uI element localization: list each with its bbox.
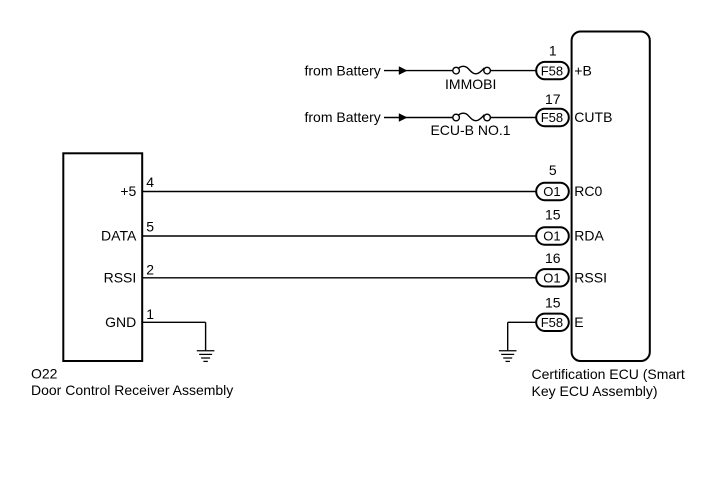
wire DATA to RDA [142, 235, 536, 237]
ground (left) [197, 351, 215, 362]
svg-text:5: 5 [549, 162, 557, 178]
svg-text:F58: F58 [541, 110, 563, 125]
fuse ECU-B NO.1 [453, 113, 491, 121]
connector F58 pin +B [536, 62, 569, 79]
box U1 Certification ECU [572, 32, 650, 362]
connector F58 pin E [536, 314, 569, 331]
svg-text:E: E [574, 314, 583, 330]
svg-text:Certification ECU (Smart: Certification ECU (Smart [532, 366, 685, 382]
svg-text:from Battery: from Battery [305, 109, 381, 125]
svg-text:CUTB: CUTB [574, 109, 612, 125]
ground (right) [499, 351, 517, 362]
svg-text:4: 4 [146, 174, 154, 190]
arrow on battery wire 1 [399, 66, 408, 75]
wire fuse ECU-B to connector F58 [490, 117, 536, 119]
svg-text:5: 5 [146, 219, 154, 235]
fuse IMMOBI [453, 66, 491, 74]
svg-text:IMMOBI: IMMOBI [445, 76, 496, 92]
svg-text:O22: O22 [31, 366, 58, 382]
svg-text:1: 1 [549, 43, 557, 59]
svg-text:GND: GND [105, 314, 136, 330]
connector F58 pin CUTB [536, 109, 569, 126]
wire E horizontal [508, 321, 536, 323]
wire +5 to RC0 [142, 191, 536, 193]
svg-text:15: 15 [545, 207, 561, 223]
svg-text:Key ECU Assembly): Key ECU Assembly) [532, 383, 658, 399]
svg-text:17: 17 [545, 91, 561, 107]
svg-text:O1: O1 [543, 271, 560, 286]
connector O1 pin RDA [536, 227, 569, 244]
connector O1 pin RSSI [536, 269, 569, 286]
svg-text:RSSI: RSSI [104, 270, 137, 286]
svg-text:F58: F58 [541, 63, 563, 78]
box O22 Door Control Receiver Assembly [63, 153, 142, 361]
wire fuse IMMOBI to connector F58 [490, 70, 536, 72]
svg-text:RSSI: RSSI [574, 270, 607, 286]
svg-text:15: 15 [545, 295, 561, 311]
svg-text:+5: +5 [120, 183, 136, 199]
svg-text:from Battery: from Battery [305, 62, 381, 78]
wire E vertical [507, 322, 509, 350]
connector O1 pin RC0 [536, 183, 569, 200]
svg-text:DATA: DATA [101, 228, 137, 244]
svg-text:1: 1 [146, 306, 154, 322]
svg-text:16: 16 [545, 250, 561, 266]
svg-text:F58: F58 [541, 315, 563, 330]
svg-text:O1: O1 [543, 229, 560, 244]
wire from Battery to fuse ECU-B NO.1 [384, 117, 453, 119]
svg-text:ECU-B NO.1: ECU-B NO.1 [430, 122, 510, 138]
svg-text:RC0: RC0 [574, 183, 602, 199]
wire GND horizontal [142, 321, 205, 323]
svg-text:Door Control Receiver Assembly: Door Control Receiver Assembly [31, 382, 233, 398]
wire RSSI [142, 277, 536, 279]
arrow on battery wire 2 [399, 113, 408, 122]
svg-text:2: 2 [146, 261, 154, 277]
svg-text:+B: +B [574, 62, 592, 78]
wire from Battery to fuse IMMOBI [384, 70, 453, 72]
svg-text:O1: O1 [543, 184, 560, 199]
wire GND vertical [205, 322, 207, 350]
svg-text:RDA: RDA [574, 228, 604, 244]
